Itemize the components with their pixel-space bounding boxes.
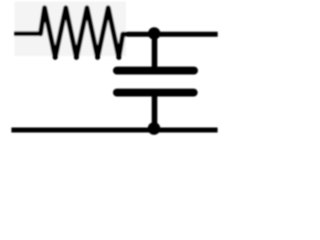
node (bottom junction) bbox=[148, 122, 161, 135]
capacitor C1 top plate bbox=[117, 67, 194, 75]
node (top junction) bbox=[148, 27, 161, 40]
resistor R1 selection highlight bbox=[15, 2, 127, 57]
resistor R1 bbox=[41, 8, 123, 58]
wire (input lead, left) bbox=[14, 31, 41, 36]
wire (bottom rail) bbox=[11, 128, 217, 133]
wire (capacitor bottom plate down to bottom rail) bbox=[152, 94, 158, 129]
wire (top rail from resistor to output) bbox=[123, 32, 218, 37]
capacitor C1 bottom plate bbox=[117, 89, 194, 97]
wire (junction down to capacitor top plate) bbox=[152, 33, 158, 69]
